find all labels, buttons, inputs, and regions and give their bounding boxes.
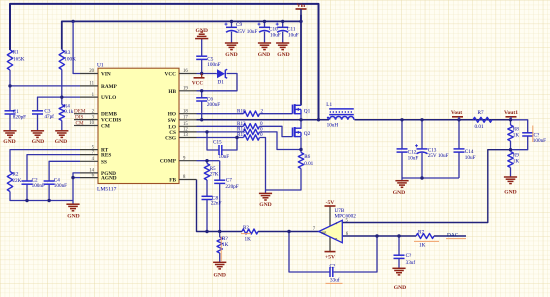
junction rail drop SW	[317, 118, 320, 121]
resistor R9	[508, 152, 513, 168]
resistor R1	[7, 50, 12, 70]
net label CM	[74, 125, 80, 127]
wire RT net	[10, 150, 80, 172]
resistor R7 shunt	[473, 117, 492, 122]
ground under output caps	[395, 180, 408, 182]
svg-text:U1: U1	[97, 63, 104, 69]
svg-text:1K: 1K	[513, 159, 520, 165]
wire C18 filter to gnd	[398, 236, 400, 255]
wire C6 bootstrap column	[201, 91, 203, 98]
svg-text:33uf: 33uf	[330, 277, 340, 284]
svg-text:Vin: Vin	[297, 3, 306, 9]
wire top rail SW-to-R1 ramp feedback	[10, 4, 319, 120]
pin 17 SW	[179, 119, 197, 121]
transistor Q1	[292, 105, 294, 114]
junction C9 rail	[230, 20, 233, 23]
wire SS net	[49, 161, 80, 181]
junction C13 rail	[420, 118, 423, 121]
svg-text:R?: R?	[243, 225, 249, 231]
resistor R5	[204, 164, 209, 181]
wire COMP net	[197, 160, 208, 162]
net label DIS	[74, 119, 80, 121]
svg-text:R6: R6	[304, 154, 310, 160]
net label DEM	[74, 113, 80, 115]
wire C15 filter loop	[207, 132, 219, 150]
svg-text:R2: R2	[12, 172, 18, 178]
capacitor C5	[196, 55, 207, 57]
power flag VCC	[201, 74, 203, 78]
svg-text:20: 20	[89, 69, 94, 74]
resistor R2	[7, 172, 12, 192]
svg-text:47pf: 47pf	[44, 113, 54, 120]
ground under R17	[213, 261, 226, 263]
pin 4 SS	[80, 160, 98, 162]
svg-text:100nF: 100nF	[54, 183, 67, 189]
svg-text:10uF: 10uF	[408, 156, 419, 162]
junction C18 node	[397, 234, 400, 237]
pin 6 AGND	[80, 177, 98, 179]
wire op-amp V+ stub	[329, 206, 331, 226]
svg-text:SS: SS	[101, 159, 107, 165]
capacitor C3	[32, 110, 43, 112]
wire FB rail to op-amp output	[258, 231, 319, 233]
svg-text:100nF: 100nF	[32, 183, 45, 189]
resistor R6 current shunt	[298, 153, 303, 169]
svg-text:0: 0	[260, 132, 263, 138]
svg-text:10uF: 10uF	[288, 32, 299, 38]
junction C13 gnd rail	[420, 176, 423, 179]
svg-text:R8: R8	[513, 126, 519, 132]
svg-text:HB: HB	[168, 89, 176, 95]
wire analog ground rail	[10, 178, 73, 201]
pin 2 DEMB	[80, 113, 98, 115]
ground under R9	[504, 176, 517, 178]
wire output caps rail	[401, 120, 403, 149]
wire RES net	[27, 155, 80, 181]
wire C5 column	[201, 39, 203, 56]
svg-text:GND: GND	[195, 28, 207, 34]
op-amp power flags done later; IC U1 LM5117	[98, 68, 179, 183]
pin 12 CS	[179, 131, 197, 133]
svg-text:820pF: 820pF	[13, 114, 26, 120]
junction VIN rail tap	[71, 20, 74, 23]
svg-text:27K: 27K	[210, 172, 219, 178]
junction C10 rail	[263, 20, 266, 23]
svg-text:CSG: CSG	[165, 136, 176, 142]
svg-text:22K: 22K	[12, 178, 21, 184]
wire UVLO net	[38, 97, 81, 110]
resistor R3	[59, 50, 64, 70]
svg-text:15: 15	[183, 122, 188, 127]
svg-text:11: 11	[89, 82, 94, 87]
svg-text:1K: 1K	[245, 237, 252, 243]
junction Vin rail	[299, 20, 302, 23]
svg-text:R7: R7	[418, 230, 424, 236]
wire C16 bottom to divider node	[511, 136, 528, 150]
wire R1-C1 column	[9, 70, 11, 111]
pin 15 LO	[179, 125, 197, 127]
junction C11 rail	[281, 20, 284, 23]
junction C7 on FB rail	[218, 230, 221, 233]
artifact orange under R18 label	[414, 240, 439, 242]
resistor R18 DAC input	[416, 234, 434, 239]
wire Q2 source to R6	[300, 137, 302, 152]
ground left rail	[66, 203, 79, 205]
svg-text:VCC: VCC	[165, 72, 177, 78]
svg-text:33uf: 33uf	[406, 259, 416, 266]
svg-text:100nF: 100nF	[207, 62, 220, 68]
svg-text:22nF: 22nF	[211, 201, 222, 207]
wire R4 to GND	[61, 121, 63, 131]
junction RAMP node	[8, 84, 11, 87]
resistor R13	[244, 124, 260, 129]
wire C2 lower lead	[26, 184, 28, 200]
capacitor C11 input	[277, 26, 288, 28]
svg-text:GND: GND	[394, 285, 406, 291]
svg-text:10uH: 10uH	[327, 123, 339, 129]
junction C14 rail	[457, 118, 460, 121]
pin 10 CM	[80, 125, 98, 127]
svg-text:GND: GND	[213, 273, 225, 279]
resistor R17 to gnd	[217, 237, 222, 253]
ground above C5 (inverted)	[195, 38, 208, 40]
wire gnd stub under R6 node	[265, 190, 267, 193]
svg-text:C?: C?	[406, 253, 412, 259]
svg-text:L1: L1	[326, 102, 332, 108]
svg-text:C7: C7	[226, 178, 232, 184]
svg-text:200nF: 200nF	[207, 102, 220, 108]
wire AGND net	[73, 177, 80, 179]
pin 19 HB	[179, 90, 197, 92]
pin 3 VCCDIS	[80, 119, 98, 121]
svg-text:HO: HO	[168, 112, 176, 118]
junction C4 rail	[47, 199, 50, 202]
power flag -5V op-amp	[325, 205, 336, 207]
capacitor C16	[522, 132, 533, 134]
junction CS sense node	[299, 148, 302, 151]
wire R16 to GND	[219, 232, 221, 238]
svg-text:Q1: Q1	[304, 108, 311, 114]
svg-text:100nF: 100nF	[533, 138, 546, 144]
svg-text:VIN: VIN	[101, 72, 111, 78]
svg-text:2: 2	[261, 108, 264, 114]
svg-text:0.01: 0.01	[304, 161, 313, 167]
junction C15-CSG	[235, 136, 238, 139]
capacitor C17 integrator	[329, 267, 331, 277]
svg-text:LM5117: LM5117	[97, 187, 117, 193]
capacitor C14	[454, 148, 465, 150]
pin 11 RAMP	[80, 85, 98, 87]
junction divider node	[509, 148, 512, 151]
svg-text:10uF: 10uF	[270, 32, 281, 38]
svg-text:-5V: -5V	[326, 200, 335, 206]
resistor R8	[508, 125, 513, 141]
svg-text:16: 16	[183, 69, 188, 74]
svg-text:C9: C9	[236, 22, 242, 28]
svg-text:Q2: Q2	[304, 131, 311, 137]
wire VIN pin drop	[73, 21, 80, 73]
ground under C1	[3, 130, 16, 132]
svg-text:R1: R1	[13, 50, 19, 56]
artifact orange near R17	[220, 237, 222, 262]
svg-text:Vout1: Vout1	[504, 110, 518, 116]
svg-text:-: -	[335, 236, 337, 242]
wire R3-R4 column	[61, 70, 63, 105]
junction COMP node	[205, 159, 208, 162]
artifact orange under R16	[241, 233, 251, 235]
svg-text:CM: CM	[76, 120, 84, 126]
svg-text:1K: 1K	[222, 242, 229, 248]
pin 14 PGND	[80, 172, 98, 174]
svg-text:25V 10uF: 25V 10uF	[428, 153, 449, 159]
svg-text:Vout: Vout	[451, 110, 462, 116]
svg-text:100K: 100K	[64, 57, 76, 63]
svg-text:GND: GND	[32, 139, 44, 145]
svg-text:R10: R10	[237, 108, 246, 114]
junction Vout1 node	[509, 118, 512, 121]
wire SW to Q2 drain	[300, 120, 302, 129]
capacitor C8	[202, 195, 213, 197]
wire C3 to GND	[37, 114, 39, 131]
svg-text:CM: CM	[101, 124, 110, 130]
svg-text:9.1k: 9.1k	[64, 109, 73, 115]
power flag +5V op-amp	[325, 251, 336, 253]
junction VCC node	[200, 72, 203, 75]
svg-text:19: 19	[183, 87, 188, 92]
svg-text:220pF: 220pF	[225, 184, 238, 190]
pin 20 VIN	[80, 73, 98, 75]
svg-text:R3: R3	[64, 50, 70, 56]
svg-text:out: out	[321, 230, 327, 235]
wire output caps ground rail	[401, 152, 403, 178]
junction feedback node	[375, 234, 378, 237]
wire Vin column to Q1 drain	[300, 15, 302, 106]
capacitor C18	[394, 254, 405, 256]
wire PGND jog	[73, 173, 80, 178]
junction C6-SW	[200, 118, 203, 121]
capacitor C2	[22, 180, 33, 182]
svg-text:C?: C?	[330, 264, 336, 270]
svg-text:25V 10uF: 25V 10uF	[237, 29, 258, 35]
capacitor C1	[5, 110, 16, 112]
svg-text:GND: GND	[67, 214, 79, 220]
wire VCC net pin16	[197, 73, 217, 75]
wire CSG net	[197, 137, 244, 139]
capacitor C4	[44, 180, 55, 182]
svg-text:RAMP: RAMP	[101, 84, 118, 90]
resistor R10	[244, 111, 260, 116]
junction op-amp output	[287, 230, 290, 233]
pin 16 VCC	[179, 73, 197, 75]
svg-text:R7: R7	[478, 110, 484, 116]
pin 13 CSG	[179, 137, 197, 139]
pin 8 FB	[179, 179, 197, 181]
svg-text:18: 18	[183, 109, 188, 114]
svg-text:GND: GND	[225, 52, 237, 58]
wire R5 upper lead	[206, 161, 208, 164]
svg-text:C15: C15	[213, 139, 222, 145]
pin 9 COMP	[179, 160, 197, 162]
diode D1	[217, 69, 225, 78]
svg-text:10uF: 10uF	[465, 155, 476, 161]
junction C15-CS	[205, 130, 208, 133]
pin 18 HO	[179, 113, 197, 115]
wire Vout1 to C16	[511, 120, 528, 133]
wire CS net	[197, 131, 244, 133]
svg-text:GND: GND	[393, 190, 405, 196]
capacitor C7	[214, 179, 225, 181]
wire op-amp -input row	[342, 235, 416, 237]
svg-text:FB: FB	[169, 178, 176, 184]
capacitor C13	[417, 148, 428, 150]
ground under C3	[31, 130, 44, 132]
wire FB net down	[197, 180, 243, 232]
ground under C10	[258, 42, 271, 44]
wire op-amp V- stub	[329, 237, 331, 252]
wire R6 bottom to gnd node	[266, 169, 302, 191]
svg-text:RES: RES	[101, 153, 111, 159]
wire DAC segment	[434, 235, 466, 237]
wire SW trunk	[197, 119, 330, 121]
wire C8 to FB rail	[206, 200, 208, 232]
capacitor C15 current sense filter	[218, 145, 220, 155]
capacitor C12	[397, 148, 408, 150]
wire integrator feedback loop	[289, 232, 330, 273]
resistor R4	[59, 105, 64, 121]
junction C8 on FB rail	[205, 230, 208, 233]
svg-text:SW: SW	[168, 118, 177, 124]
wire R5 to C8	[206, 180, 208, 196]
svg-text:165K: 165K	[13, 57, 25, 63]
ground under C18	[392, 267, 405, 269]
wire RAMP net	[10, 85, 80, 87]
wire C4 lower lead	[48, 184, 50, 200]
resistor R14	[244, 129, 260, 134]
svg-text:+: +	[335, 222, 338, 227]
ground under C11	[276, 42, 289, 44]
svg-text:AGND: AGND	[101, 176, 117, 182]
junction PGND-AGND	[71, 176, 74, 179]
wire VIN rail	[62, 21, 301, 49]
svg-text:13: 13	[183, 133, 188, 138]
wire D1 cathode return to HB	[197, 74, 238, 91]
wire Q1 source to SW	[300, 113, 302, 120]
svg-text:GND: GND	[258, 52, 270, 58]
wire ground stub left rail	[72, 201, 74, 205]
wire SW trunk after L1	[355, 119, 511, 121]
svg-text:1K: 1K	[513, 133, 520, 139]
wire LO gate drive	[197, 125, 244, 127]
svg-text:10nF: 10nF	[219, 154, 230, 160]
wire R8 leads	[510, 120, 512, 125]
svg-text:GND: GND	[259, 202, 271, 208]
op-amp U7B MPC6002	[319, 220, 343, 242]
junction UVLO divider	[60, 95, 63, 98]
pin 7 RES	[80, 154, 98, 156]
pin 1 UVLO	[80, 96, 98, 98]
svg-text:GND: GND	[55, 139, 67, 145]
junction HB node	[200, 89, 203, 92]
resistor R16 horizontal	[242, 229, 258, 234]
svg-text:D1: D1	[218, 80, 225, 86]
svg-text:UVLO: UVLO	[101, 95, 116, 101]
artifact orange near C16	[532, 126, 534, 143]
wire C7 upper lead	[219, 161, 221, 180]
wire R9 to GND	[510, 168, 512, 177]
svg-text:+5V: +5V	[325, 255, 335, 261]
svg-text:12: 12	[183, 128, 188, 133]
svg-text:DAC: DAC	[447, 232, 459, 238]
junction SW node	[299, 118, 302, 121]
wire C1 to GND	[9, 114, 11, 131]
svg-text:GND: GND	[277, 52, 289, 58]
wire op-amp +input sense	[342, 150, 510, 223]
ground under R6	[259, 192, 272, 194]
svg-text:GND: GND	[3, 139, 15, 145]
wire R7 output sense segment	[493, 119, 511, 121]
resistor R15	[244, 135, 260, 140]
ground under C9	[225, 42, 238, 44]
wire HO gate drive	[197, 113, 244, 115]
svg-text:0.01: 0.01	[475, 124, 484, 130]
capacitor C9 input	[226, 26, 237, 28]
svg-text:17: 17	[183, 116, 188, 121]
junction C12 rail	[400, 118, 403, 121]
junction C2 rail	[25, 199, 28, 202]
capacitor C10 input	[259, 26, 270, 28]
transistor Q2	[292, 128, 294, 137]
wire C7 to FB rail	[219, 183, 221, 231]
svg-text:10: 10	[89, 121, 94, 126]
svg-text:GND: GND	[504, 190, 516, 196]
svg-text:COMP: COMP	[160, 159, 177, 165]
ground under R4	[55, 130, 68, 132]
artifact orange under C17	[326, 282, 343, 284]
capacitor C6	[196, 97, 207, 99]
pin 5 RT	[80, 149, 98, 151]
svg-text:1K: 1K	[419, 242, 426, 248]
svg-text:VCC: VCC	[192, 80, 203, 86]
